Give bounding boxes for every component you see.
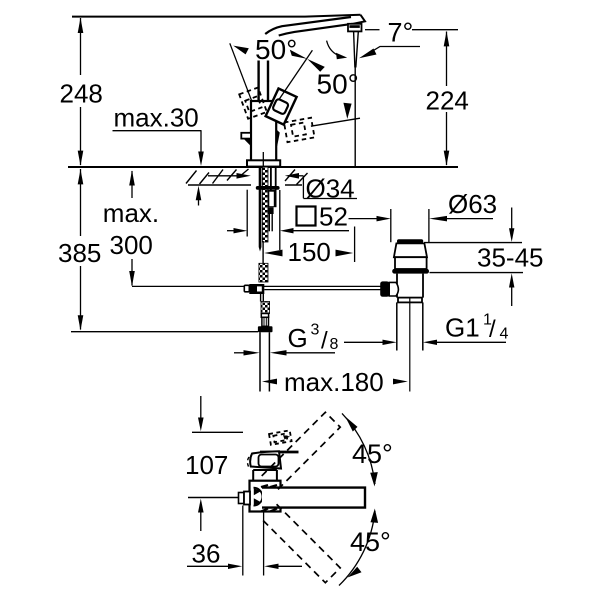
pop-up rod guide tube upper lines bbox=[271, 167, 276, 190]
waste neck bbox=[394, 243, 427, 257]
waste lever knob bbox=[380, 281, 389, 296]
waste O-ring bbox=[392, 269, 429, 274]
countertop hatching bbox=[186, 169, 308, 185]
waste centerline bbox=[409, 297, 411, 392]
svg-text:7°: 7° bbox=[388, 18, 414, 48]
dimension 150 bbox=[264, 227, 354, 263]
svg-text:385: 385 bbox=[58, 238, 101, 268]
countertop bottom line bbox=[188, 184, 302, 186]
waste cap bbox=[397, 239, 423, 243]
waste union band bbox=[398, 298, 422, 303]
dimension max.300 bbox=[129, 170, 135, 286]
dimension dia63 bbox=[349, 209, 494, 242]
angle leader left (50deg) bbox=[230, 43, 252, 101]
mounting stud bbox=[259, 167, 262, 252]
sq52 extension lines bbox=[247, 190, 280, 250]
dashed handle position left bbox=[239, 88, 267, 119]
escutcheon base plate bbox=[247, 160, 280, 166]
pop-up waste assembly bbox=[380, 239, 429, 391]
spout top curve bbox=[265, 17, 351, 34]
dimension 248 bbox=[78, 18, 84, 166]
waste tail pipe bbox=[397, 302, 423, 350]
valve stem bbox=[262, 317, 269, 326]
dimension 35-45 bbox=[424, 208, 523, 307]
svg-text:300: 300 bbox=[110, 230, 153, 260]
base bottom hatch bbox=[261, 485, 277, 512]
faucet body bbox=[251, 101, 276, 161]
svg-text:45°: 45° bbox=[352, 439, 393, 469]
107 top reference line bbox=[192, 431, 243, 433]
outlet level extension left of 7deg bbox=[365, 29, 380, 31]
threaded shank bbox=[262, 167, 268, 242]
svg-text:G: G bbox=[288, 323, 308, 353]
svg-text:35-45: 35-45 bbox=[477, 243, 544, 273]
svg-text:224: 224 bbox=[426, 86, 469, 116]
aerator nub bbox=[348, 24, 362, 32]
top view left tab bbox=[239, 492, 251, 505]
svg-text:107: 107 bbox=[185, 450, 228, 480]
dimension 224 bbox=[444, 31, 450, 166]
dashed handle position lower right bbox=[284, 118, 315, 142]
svg-text:8: 8 bbox=[330, 336, 339, 353]
spout tip cap bbox=[353, 15, 365, 24]
svg-text:/: / bbox=[321, 328, 328, 355]
svg-text:45°: 45° bbox=[350, 527, 391, 557]
svg-text:Ø34: Ø34 bbox=[306, 174, 355, 204]
body left tab bbox=[241, 133, 251, 146]
385 bottom reference line bbox=[71, 331, 258, 333]
7deg leader line bbox=[359, 47, 420, 59]
lower thread block bbox=[261, 302, 270, 314]
dimension 385 bbox=[78, 169, 84, 331]
svg-text:150: 150 bbox=[288, 237, 331, 267]
dimension dia34 bbox=[208, 173, 357, 199]
compression ring bbox=[261, 314, 268, 318]
faucet centerline through base bbox=[262, 152, 264, 167]
pop-up rod bbox=[262, 241, 264, 263]
top view dashed handle tip bbox=[269, 430, 292, 444]
mounting nut bbox=[256, 186, 280, 190]
dimension sq52 bbox=[227, 228, 349, 233]
top view swivel base bbox=[250, 481, 281, 512]
svg-text:/: / bbox=[489, 316, 496, 343]
svg-text:G1: G1 bbox=[445, 313, 480, 343]
spout top line / 248 extension bbox=[72, 15, 361, 17]
45deg arc upper bbox=[342, 413, 378, 486]
spout bottom curve bbox=[279, 24, 353, 36]
pop-up rod guide tube bbox=[268, 190, 277, 231]
top view body mid bbox=[253, 470, 277, 484]
svg-text:36: 36 bbox=[192, 539, 221, 569]
solid lever handle bbox=[266, 89, 297, 125]
7deg swing arc bbox=[327, 41, 348, 60]
dimension max.30 bbox=[113, 131, 204, 206]
water stream bbox=[354, 32, 359, 166]
svg-text:3: 3 bbox=[311, 322, 320, 339]
top view dashed handle wedge bbox=[283, 435, 290, 440]
countertop surface line bbox=[68, 166, 458, 168]
waste barrel lower bbox=[397, 274, 423, 298]
top view spout bar bbox=[262, 488, 365, 508]
lever pin bbox=[259, 61, 268, 101]
svg-text:50°: 50° bbox=[255, 34, 297, 65]
svg-text:Ø63: Ø63 bbox=[448, 189, 497, 219]
supply pipe bbox=[260, 332, 269, 391]
dimension G3/8 bbox=[234, 350, 335, 355]
dashed spout position up 45 bbox=[262, 412, 340, 490]
svg-text:4: 4 bbox=[500, 326, 509, 343]
dimension G1 1/4 bbox=[344, 340, 506, 345]
svg-text:248: 248 bbox=[60, 79, 103, 109]
107 bottom reference line bbox=[188, 497, 240, 499]
waste barrel upper bbox=[395, 257, 427, 269]
body right wedge bbox=[276, 129, 280, 146]
horizontal pop-up linkage rod bbox=[132, 286, 381, 289]
svg-text:50°: 50° bbox=[317, 69, 359, 100]
G3/8 nut bbox=[258, 326, 273, 332]
45deg arc lower bbox=[339, 509, 378, 586]
svg-text:max.180: max.180 bbox=[284, 367, 384, 397]
7deg to 224 link line bbox=[412, 29, 458, 31]
svg-text:max.30: max.30 bbox=[114, 103, 199, 133]
solid lever handle inner face bbox=[272, 98, 289, 114]
rod swivel fitting bbox=[244, 284, 264, 294]
dimension max.180 bbox=[262, 379, 408, 385]
svg-text:max.: max. bbox=[103, 198, 159, 228]
top view lever base bbox=[248, 451, 282, 468]
rod lower section bbox=[261, 294, 264, 302]
swivel joint semicircle bbox=[254, 488, 263, 506]
waste lever clevis bbox=[389, 282, 398, 296]
dimension 107 bbox=[198, 396, 204, 531]
angle leader right (50deg) bbox=[277, 50, 325, 102]
leader from lower 50deg to handle axis bbox=[311, 103, 360, 126]
svg-text:52: 52 bbox=[319, 202, 348, 232]
dimension 36 bbox=[187, 506, 302, 576]
dashed spout position down 45 bbox=[262, 504, 340, 582]
top view lever bar bbox=[260, 451, 299, 454]
rod thread block bbox=[259, 263, 268, 282]
